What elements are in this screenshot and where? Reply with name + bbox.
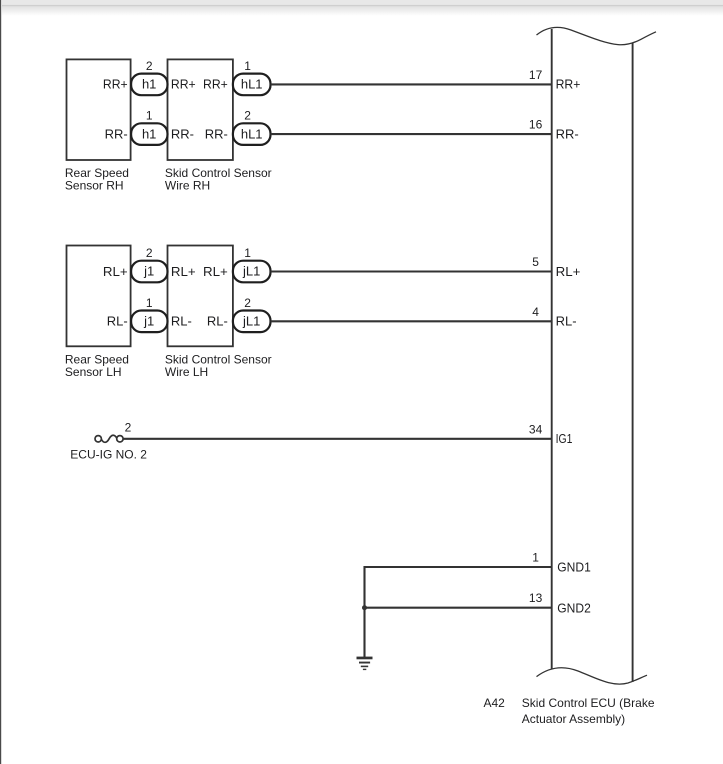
svg-text:34: 34 [529, 422, 543, 436]
svg-text:RR+: RR+ [556, 77, 581, 92]
svg-text:RL-: RL- [171, 314, 192, 329]
svg-text:jL1: jL1 [242, 264, 260, 279]
svg-text:1: 1 [244, 246, 251, 260]
svg-text:RL+: RL+ [171, 264, 196, 279]
svg-text:16: 16 [529, 118, 543, 132]
svg-text:2: 2 [244, 109, 251, 123]
svg-text:jL1: jL1 [242, 314, 260, 329]
svg-text:RL+: RL+ [556, 264, 581, 279]
svg-text:13: 13 [529, 591, 543, 605]
svg-text:h1: h1 [142, 126, 156, 141]
svg-text:RR+: RR+ [103, 77, 128, 92]
svg-text:1: 1 [146, 296, 153, 310]
svg-text:RL+: RL+ [103, 264, 128, 279]
svg-text:2: 2 [244, 296, 251, 310]
svg-text:IG1: IG1 [556, 431, 573, 446]
svg-text:2: 2 [146, 59, 153, 73]
svg-text:h1: h1 [142, 77, 156, 92]
svg-text:1: 1 [532, 550, 539, 564]
svg-text:1: 1 [146, 109, 153, 123]
svg-text:2: 2 [146, 246, 153, 260]
svg-text:GND2: GND2 [557, 600, 591, 615]
svg-text:j1: j1 [143, 314, 154, 329]
svg-text:j1: j1 [143, 264, 154, 279]
svg-text:4: 4 [532, 305, 539, 319]
svg-text:Sensor LH: Sensor LH [65, 365, 122, 379]
svg-text:Wire RH: Wire RH [165, 178, 210, 192]
svg-text:RR-: RR- [171, 126, 194, 141]
svg-text:RL-: RL- [556, 314, 577, 329]
svg-text:RR-: RR- [556, 126, 579, 141]
svg-text:1: 1 [244, 59, 251, 73]
svg-text:17: 17 [529, 68, 543, 82]
svg-text:Sensor RH: Sensor RH [65, 178, 124, 192]
svg-text:RR-: RR- [105, 126, 128, 141]
svg-text:GND1: GND1 [557, 560, 591, 575]
svg-text:2: 2 [125, 421, 132, 435]
svg-text:Actuator Assembly): Actuator Assembly) [522, 712, 625, 726]
svg-text:Skid Control ECU (Brake: Skid Control ECU (Brake [522, 696, 655, 710]
svg-text:Wire LH: Wire LH [165, 365, 208, 379]
svg-text:RL-: RL- [107, 314, 128, 329]
svg-text:RR+: RR+ [203, 77, 228, 92]
svg-text:hL1: hL1 [241, 77, 263, 92]
svg-text:ECU-IG NO. 2: ECU-IG NO. 2 [70, 448, 147, 462]
svg-text:A42: A42 [484, 696, 506, 710]
svg-text:RL+: RL+ [203, 264, 228, 279]
svg-text:5: 5 [532, 255, 539, 269]
svg-text:RL-: RL- [207, 314, 228, 329]
svg-text:RR+: RR+ [171, 77, 196, 92]
svg-text:RR-: RR- [205, 126, 228, 141]
svg-text:hL1: hL1 [241, 126, 263, 141]
